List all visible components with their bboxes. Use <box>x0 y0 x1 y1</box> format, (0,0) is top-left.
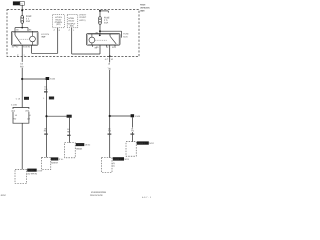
svg-text:J0257: J0257 <box>0 194 7 197</box>
clockspring dashed box (B) <box>42 157 51 169</box>
right relay coil <box>89 37 95 43</box>
horn relay jumper wire to pins 30 and 86 <box>15 28 28 32</box>
svg-text:SWITCH: SWITCH <box>51 161 58 164</box>
svg-text:M25: M25 <box>123 35 128 38</box>
svg-text:TN: TN <box>107 68 110 71</box>
splice dot wire D <box>109 115 111 117</box>
left relay coil <box>30 36 36 42</box>
svg-text:HORN 2: HORN 2 <box>137 142 145 145</box>
svg-text:DISTRIBUTION: DISTRIBUTION <box>140 7 150 10</box>
svg-text:(S/C): (S/C) <box>85 144 91 147</box>
wire from banner to fuse F21 <box>21 5 23 15</box>
svg-text:RD: RD <box>13 118 16 121</box>
svg-text:CNTRL: CNTRL <box>76 144 84 147</box>
TIPM control dashed box 1 <box>53 15 65 28</box>
svg-text:OR: OR <box>27 118 31 121</box>
svg-text:(EX): (EX) <box>11 109 15 112</box>
svg-text:RD: RD <box>20 65 24 68</box>
splice dot wire A <box>21 78 23 80</box>
wire A lower segment from split <box>21 123 23 169</box>
svg-text:85: 85 <box>28 46 31 49</box>
svg-text:57 HORN SYSTEM: 57 HORN SYSTEM <box>91 191 106 194</box>
wire A: relay output down through PDC boundary <box>21 45 23 79</box>
power distribution center dashed boundary box <box>7 10 139 57</box>
wire E down to horn no.2 <box>131 117 133 141</box>
TIPM control dashed box 2 <box>67 15 78 28</box>
right relay coil link (dashed) <box>95 39 108 41</box>
wire A gauge label <box>20 62 24 68</box>
svg-text:HORN: HORN <box>28 169 34 172</box>
svg-text:C 18: C 18 <box>16 98 21 101</box>
junction dot below fuse F25 <box>99 30 101 32</box>
svg-text:C100: C100 <box>11 104 18 107</box>
control module dashed box (C) <box>65 143 76 158</box>
left relay switch arm <box>15 35 21 44</box>
svg-text:CENTER: CENTER <box>140 10 145 13</box>
svg-text:RD: RD <box>44 88 48 91</box>
right relay switch contact stub <box>109 34 111 37</box>
stub wire from right feed dot <box>100 10 108 12</box>
left relay coil link (dashed) <box>20 38 29 40</box>
svg-text:C: C <box>69 29 71 32</box>
svg-text:87: 87 <box>16 46 19 49</box>
split bottom bar <box>13 122 30 124</box>
jog wire to right relay pin 30 <box>72 53 100 55</box>
wire fuse F21 to relay jumper <box>21 23 23 27</box>
right relay coil bottom pin stub <box>92 45 94 47</box>
svg-text:HORN: HORN <box>51 158 57 161</box>
hot-at-all-times banner black box <box>13 1 20 5</box>
right relay switch arm <box>110 36 116 44</box>
svg-text:RELAY: RELAY <box>68 19 75 22</box>
junction dot on relay jumper <box>21 27 23 29</box>
wire A upper segment into split <box>21 79 23 108</box>
splice label S111 black box <box>67 115 72 118</box>
connector pin wire (right text box) <box>71 28 73 54</box>
wire E pin tick <box>130 134 134 135</box>
svg-text:C100: C100 <box>24 98 30 101</box>
horn no.1 label <box>113 157 124 160</box>
svg-text:40A: 40A <box>26 20 31 23</box>
wire D: right relay output down <box>109 45 111 158</box>
right relay top pin dot <box>99 34 101 36</box>
horn no.1 dashed box <box>102 158 113 173</box>
svg-text:30: 30 <box>12 46 15 49</box>
wire B down from splice label <box>46 80 48 157</box>
wire D pin tick <box>108 134 112 135</box>
horn label <box>27 169 37 172</box>
svg-text:S144: S144 <box>135 115 141 118</box>
svg-text:NO2: NO2 <box>149 142 154 145</box>
junction dot at dashed boundary, left feed <box>21 9 23 11</box>
branch wire from splice B <box>47 115 67 117</box>
svg-text:2004 DODGE: 2004 DODGE <box>90 194 104 197</box>
svg-text:86: 86 <box>96 31 99 34</box>
svg-text:18: 18 <box>28 114 31 117</box>
branch wire to PDC internal fuse tap <box>100 30 122 32</box>
fuse F25 symbol <box>99 17 102 25</box>
horn relay box (right relay) <box>87 34 121 46</box>
wire A alternate-path split top bar <box>13 107 30 109</box>
right relay pin 87A stub <box>114 45 116 46</box>
left relay pin 87A stub <box>14 45 16 46</box>
svg-text:TN: TN <box>108 130 111 133</box>
horn relay box (left relay) <box>12 31 39 45</box>
svg-text:(1): (1) <box>113 164 116 167</box>
svg-text:NO1: NO1 <box>125 158 130 161</box>
svg-text:10: 10 <box>111 58 114 61</box>
branch wire from splice A <box>22 78 46 80</box>
svg-text:(SW): (SW) <box>70 25 74 28</box>
svg-text:OF PDC: OF PDC <box>79 16 86 19</box>
wire fuse F25 to right relay <box>99 24 101 33</box>
splice dot wire B <box>45 115 47 117</box>
split right branch <box>28 108 30 124</box>
splice label S110 black box <box>46 77 50 80</box>
wire E gauge label <box>130 128 133 132</box>
wire feed to fuse F25 <box>99 11 101 17</box>
svg-text:C: C <box>107 58 109 61</box>
split left branch <box>12 108 14 124</box>
left relay coil pin wire down <box>31 45 33 53</box>
fuse F21 symbol <box>21 16 24 24</box>
svg-text:(W/ SPKR): (W/ SPKR) <box>27 173 37 176</box>
svg-text:LOW: LOW <box>37 169 43 172</box>
clockspring label <box>51 157 58 160</box>
splice label S144 black box <box>131 114 135 117</box>
branch wire to horn no.2 <box>110 115 131 117</box>
horn no.2 dashed box <box>126 142 136 157</box>
horn dashed box (A) <box>15 169 27 183</box>
svg-text:SW.: SW. <box>59 158 65 161</box>
svg-text:C126: C126 <box>49 97 55 100</box>
svg-text:HORN 1: HORN 1 <box>113 158 121 161</box>
svg-text:40A: 40A <box>104 22 109 25</box>
svg-text:(W/): (W/) <box>25 109 29 112</box>
svg-text:1: 1 <box>43 97 45 100</box>
banner fuse number white box <box>20 1 24 5</box>
jog wire coil pin to connector pin (left) <box>32 52 58 54</box>
wire B pin tick <box>44 134 48 135</box>
svg-text:S110: S110 <box>50 78 56 81</box>
svg-text:C: C <box>54 29 56 32</box>
svg-text:(PCI): (PCI) <box>56 23 60 26</box>
svg-text:18: 18 <box>15 114 18 117</box>
svg-text:ASSY): ASSY) <box>79 19 85 22</box>
svg-text:RD: RD <box>67 130 71 133</box>
svg-text:MODULE: MODULE <box>76 148 83 151</box>
left relay switch contact stub <box>14 31 16 35</box>
svg-text:TN: TN <box>131 130 134 133</box>
svg-text:6: 6 <box>59 29 61 32</box>
control module label <box>76 143 85 146</box>
svg-text:RD: RD <box>44 130 48 133</box>
svg-text:RELAY: RELAY <box>42 35 47 38</box>
split branch labels row A <box>11 109 30 112</box>
horn no.2 label <box>137 141 149 144</box>
wire D boundary crossing tick <box>109 55 111 57</box>
wire C down from splice label S111 <box>69 118 71 143</box>
svg-text:A57-1: A57-1 <box>142 196 152 199</box>
svg-text:(2): (2) <box>113 162 116 165</box>
right relay pin 87 stub <box>106 45 108 46</box>
svg-text:87A: 87A <box>112 46 116 49</box>
junction dot right feed on dashed boundary <box>99 10 101 12</box>
svg-text:POWER: POWER <box>140 4 146 7</box>
wire C pin tick <box>67 135 70 136</box>
svg-text:1: 1 <box>73 29 75 32</box>
svg-text:FUSE: FUSE <box>123 32 129 35</box>
svg-text:87: 87 <box>106 46 109 49</box>
wire D gauge label <box>107 62 111 70</box>
